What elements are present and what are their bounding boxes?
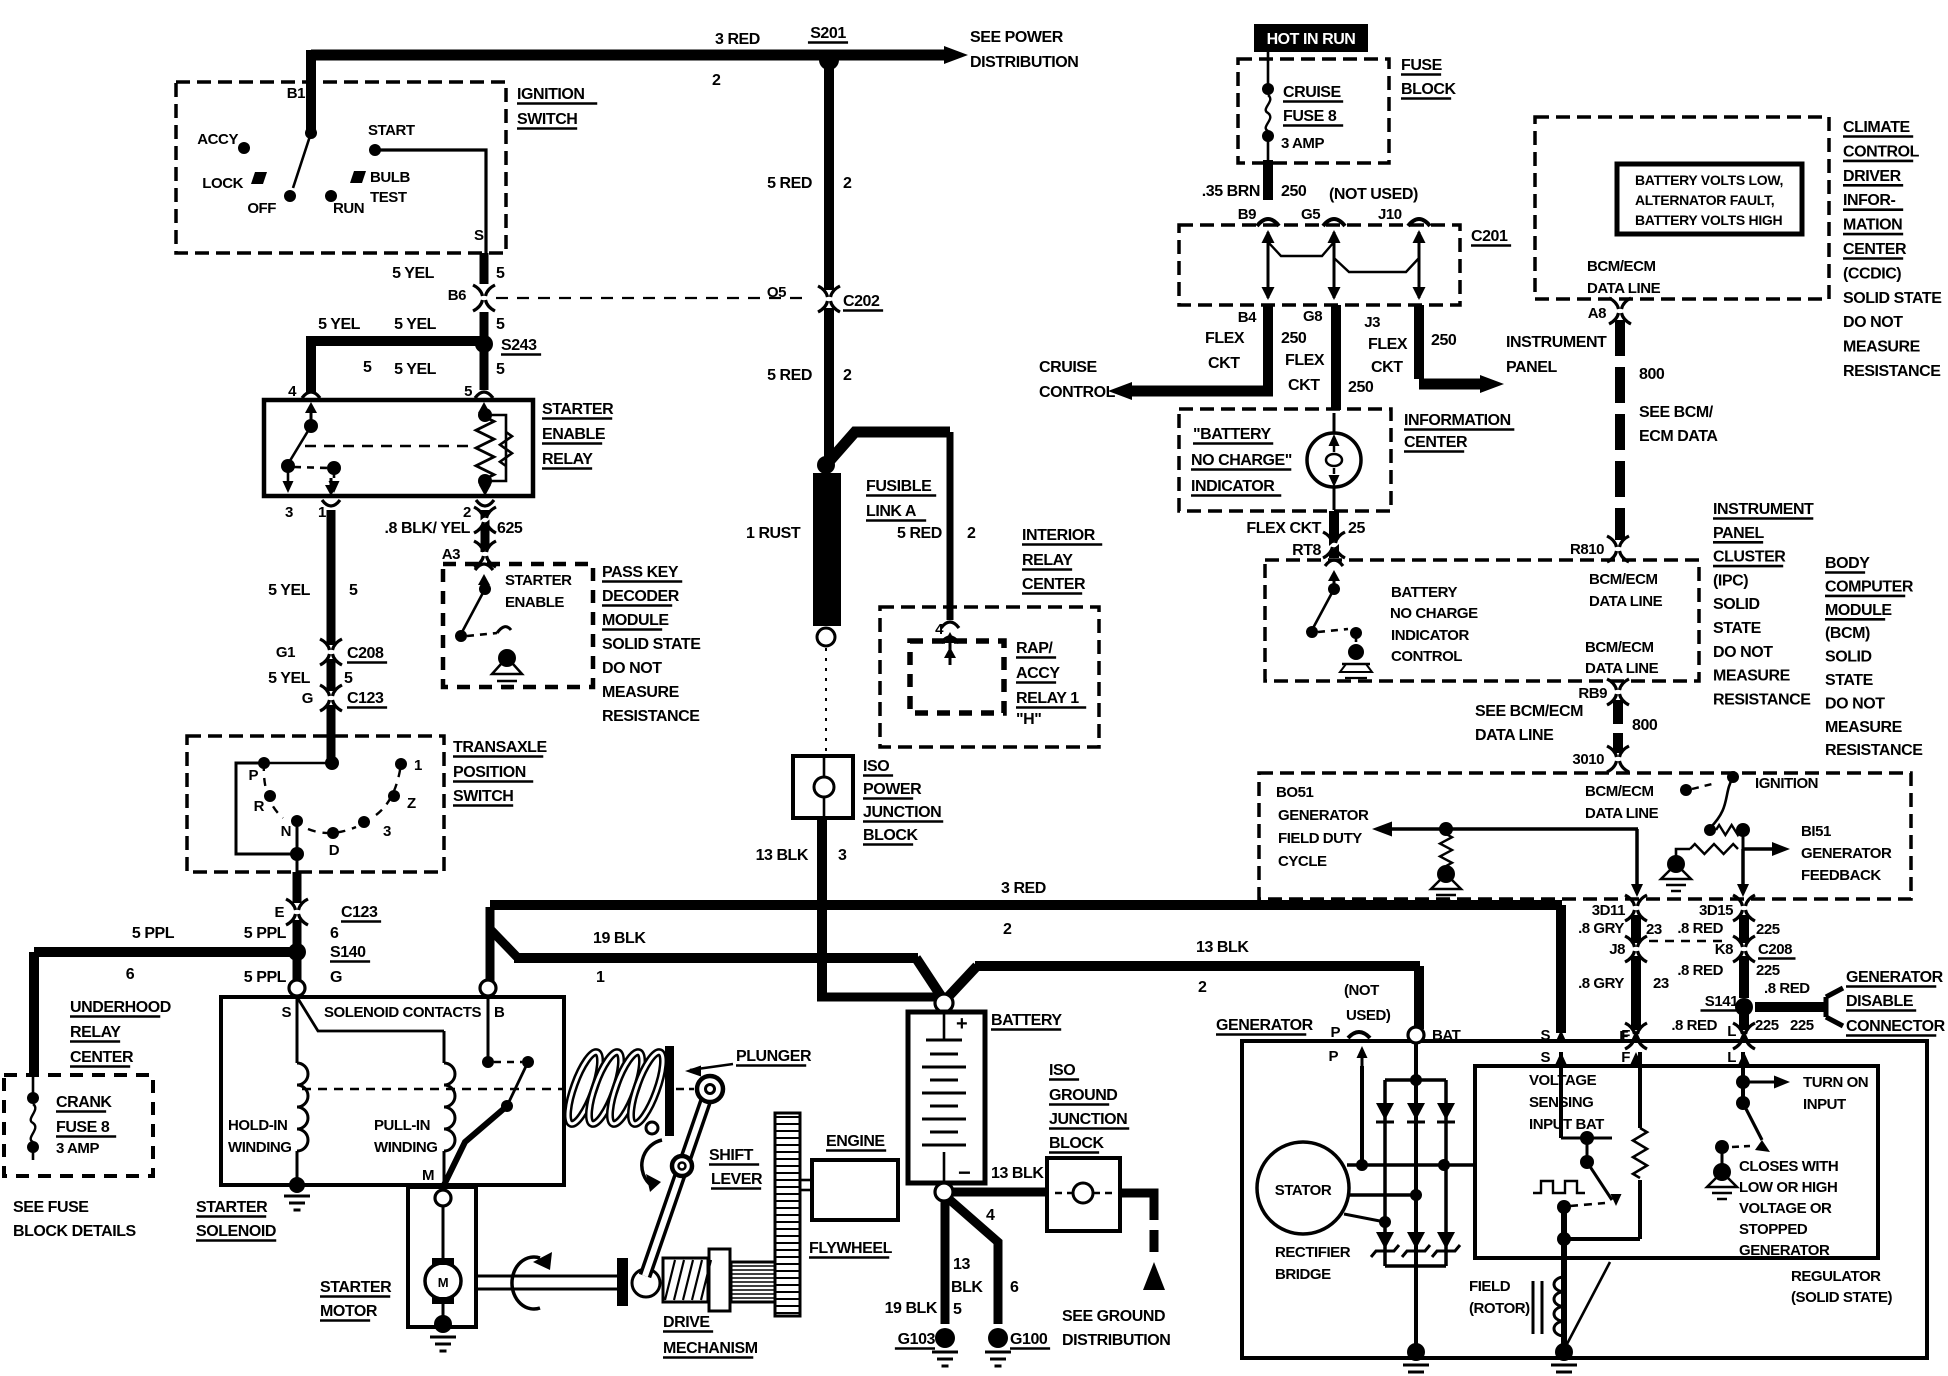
svg-text:FUSE 8: FUSE 8 <box>1283 108 1337 125</box>
svg-text:5 YEL: 5 YEL <box>268 670 311 687</box>
svg-text:GENERATOR: GENERATOR <box>1216 1017 1314 1034</box>
svg-text:.8 RED: .8 RED <box>1677 920 1723 937</box>
svg-text:G5: G5 <box>1301 206 1320 223</box>
svg-text:CRANK: CRANK <box>56 1094 112 1111</box>
svg-text:S141: S141 <box>1705 993 1738 1010</box>
svg-text:INSTRUMENT: INSTRUMENT <box>1713 501 1814 518</box>
svg-text:5 YEL: 5 YEL <box>394 316 437 333</box>
svg-text:2: 2 <box>843 367 852 384</box>
svg-text:5 YEL: 5 YEL <box>392 265 435 282</box>
svg-text:5 PPL: 5 PPL <box>244 925 287 942</box>
svg-text:BAT: BAT <box>1432 1027 1461 1044</box>
svg-text:NO CHARGE: NO CHARGE <box>1390 605 1478 622</box>
svg-text:S: S <box>474 227 484 244</box>
svg-text:STARTER: STARTER <box>505 572 572 589</box>
svg-text:DATA LINE: DATA LINE <box>1475 727 1554 744</box>
svg-text:P: P <box>1330 1024 1340 1041</box>
svg-text:CENTER: CENTER <box>1022 576 1086 593</box>
svg-text:HOLD-IN: HOLD-IN <box>228 1117 287 1134</box>
svg-text:S243: S243 <box>501 337 537 354</box>
svg-text:BLOCK: BLOCK <box>1401 81 1457 98</box>
svg-text:SOLID STATE: SOLID STATE <box>1843 290 1942 307</box>
svg-text:4: 4 <box>288 383 297 400</box>
svg-text:RUN: RUN <box>333 200 364 217</box>
svg-text:RESISTANCE: RESISTANCE <box>602 708 700 725</box>
svg-text:SOLENOID CONTACTS: SOLENOID CONTACTS <box>324 1004 482 1021</box>
svg-text:P: P <box>248 767 258 784</box>
svg-text:RELAY: RELAY <box>542 451 593 468</box>
svg-text:TEST: TEST <box>370 189 407 206</box>
svg-text:ENABLE: ENABLE <box>505 594 564 611</box>
svg-text:INFORMATION: INFORMATION <box>1404 412 1511 429</box>
svg-text:DATA LINE: DATA LINE <box>1585 660 1659 677</box>
svg-text:−: − <box>958 1160 970 1185</box>
svg-text:13 BLK: 13 BLK <box>756 847 809 864</box>
svg-text:J3: J3 <box>1364 314 1380 331</box>
svg-text:PULL-IN: PULL-IN <box>374 1117 430 1134</box>
svg-text:MODULE: MODULE <box>1825 602 1892 619</box>
svg-text:250: 250 <box>1431 332 1457 349</box>
svg-text:FUSE 8: FUSE 8 <box>56 1119 110 1136</box>
svg-text:START: START <box>368 122 415 139</box>
svg-text:(ROTOR): (ROTOR) <box>1469 1300 1530 1317</box>
svg-text:FLEX: FLEX <box>1205 330 1245 347</box>
svg-text:REGULATOR: REGULATOR <box>1791 1268 1881 1285</box>
svg-text:PANEL: PANEL <box>1713 525 1764 542</box>
svg-text:.8 RED: .8 RED <box>1677 962 1723 979</box>
svg-text:B4: B4 <box>1238 309 1257 326</box>
svg-text:6: 6 <box>1010 1279 1019 1296</box>
svg-text:IGNITION: IGNITION <box>517 86 585 103</box>
svg-text:JUNCTION: JUNCTION <box>1049 1111 1127 1128</box>
svg-text:BI51: BI51 <box>1801 823 1831 840</box>
svg-text:RELAY: RELAY <box>1022 552 1073 569</box>
svg-text:MODULE: MODULE <box>602 612 669 629</box>
svg-text:5 PPL: 5 PPL <box>244 969 287 986</box>
svg-text:CENTER: CENTER <box>1404 434 1468 451</box>
svg-text:2: 2 <box>712 72 721 89</box>
svg-text:BATTERY VOLTS HIGH: BATTERY VOLTS HIGH <box>1635 212 1782 228</box>
svg-text:CONTROL: CONTROL <box>1391 648 1462 665</box>
svg-text:FUSE: FUSE <box>1401 57 1443 74</box>
svg-text:2: 2 <box>1003 921 1012 938</box>
svg-text:C123: C123 <box>341 904 378 921</box>
svg-text:3 AMP: 3 AMP <box>1281 135 1324 152</box>
svg-text:MEASURE: MEASURE <box>1843 339 1921 356</box>
svg-text:3: 3 <box>383 823 391 840</box>
svg-text:GENERATOR: GENERATOR <box>1801 845 1892 862</box>
svg-text:COMPUTER: COMPUTER <box>1825 578 1914 595</box>
svg-text:ISO: ISO <box>863 758 889 775</box>
svg-text:BCM/ECM: BCM/ECM <box>1585 783 1654 800</box>
svg-text:G100: G100 <box>1010 1331 1048 1348</box>
svg-text:ACCY: ACCY <box>1016 665 1060 682</box>
svg-text:13 BLK: 13 BLK <box>991 1165 1044 1182</box>
svg-text:DISTRIBUTION: DISTRIBUTION <box>1062 1332 1170 1349</box>
svg-text:F: F <box>1621 1027 1630 1044</box>
svg-text:DO NOT: DO NOT <box>1825 695 1885 712</box>
svg-text:E: E <box>274 904 284 921</box>
svg-text:1: 1 <box>318 504 326 521</box>
svg-text:1 RUST: 1 RUST <box>746 525 801 542</box>
svg-text:VOLTAGE OR: VOLTAGE OR <box>1739 1200 1832 1217</box>
svg-text:A3: A3 <box>442 546 460 563</box>
svg-text:DRIVE: DRIVE <box>663 1314 710 1331</box>
svg-text:CKT: CKT <box>1371 359 1403 376</box>
svg-text:CRUISE: CRUISE <box>1283 84 1342 101</box>
svg-text:C208: C208 <box>1758 941 1792 958</box>
svg-text:(NOT USED): (NOT USED) <box>1329 186 1418 203</box>
svg-text:INPUT BAT: INPUT BAT <box>1529 1116 1604 1133</box>
svg-text:13 BLK: 13 BLK <box>1196 939 1249 956</box>
svg-text:5 RED: 5 RED <box>897 525 942 542</box>
svg-text:Z: Z <box>407 795 416 812</box>
svg-text:(BCM): (BCM) <box>1825 625 1870 642</box>
svg-text:800: 800 <box>1632 717 1658 734</box>
svg-text:1: 1 <box>596 969 605 986</box>
svg-text:R810: R810 <box>1570 541 1604 558</box>
svg-text:CLUSTER: CLUSTER <box>1713 549 1786 566</box>
svg-text:625: 625 <box>497 520 523 537</box>
svg-text:STARTER: STARTER <box>320 1279 392 1296</box>
svg-text:P: P <box>1328 1048 1338 1065</box>
svg-text:INDICATOR: INDICATOR <box>1391 627 1470 644</box>
svg-text:BATTERY VOLTS LOW,: BATTERY VOLTS LOW, <box>1635 172 1783 188</box>
svg-text:N: N <box>281 823 291 840</box>
svg-text:6: 6 <box>330 925 339 942</box>
svg-text:FUSIBLE: FUSIBLE <box>866 478 932 495</box>
svg-text:WINDING: WINDING <box>374 1139 438 1156</box>
svg-text:BULB: BULB <box>370 169 410 186</box>
svg-text:G: G <box>302 690 313 707</box>
svg-text:3: 3 <box>285 504 293 521</box>
svg-text:RESISTANCE: RESISTANCE <box>1713 691 1811 708</box>
svg-text:(CCDIC): (CCDIC) <box>1843 265 1901 282</box>
svg-text:STOPPED: STOPPED <box>1739 1221 1808 1238</box>
svg-text:CLIMATE: CLIMATE <box>1843 119 1911 136</box>
svg-text:5: 5 <box>496 316 505 333</box>
svg-text:5: 5 <box>496 361 505 378</box>
svg-text:INFOR-: INFOR- <box>1843 192 1896 209</box>
svg-text:250: 250 <box>1348 379 1374 396</box>
svg-text:S: S <box>1540 1027 1550 1044</box>
svg-text:2: 2 <box>843 175 852 192</box>
svg-text:(IPC): (IPC) <box>1713 572 1748 589</box>
svg-text:DO NOT: DO NOT <box>1843 314 1903 331</box>
svg-text:225: 225 <box>1790 1017 1814 1034</box>
svg-text:M: M <box>438 1275 448 1290</box>
svg-text:3: 3 <box>838 847 847 864</box>
svg-text:C208: C208 <box>347 645 384 662</box>
svg-text:DO NOT: DO NOT <box>602 660 662 677</box>
svg-text:BCM/ECM: BCM/ECM <box>1585 639 1654 656</box>
svg-text:POWER: POWER <box>863 781 922 798</box>
svg-text:FLYWHEEL: FLYWHEEL <box>809 1240 893 1257</box>
svg-text:LOW OR HIGH: LOW OR HIGH <box>1739 1179 1837 1196</box>
svg-text:C202: C202 <box>843 293 880 310</box>
svg-text:FLEX CKT: FLEX CKT <box>1246 520 1321 537</box>
svg-text:"BATTERY: "BATTERY <box>1193 426 1272 443</box>
svg-text:GENERATOR: GENERATOR <box>1278 807 1369 824</box>
svg-text:INDICATOR: INDICATOR <box>1191 478 1275 495</box>
svg-text:BODY: BODY <box>1825 555 1870 572</box>
svg-text:13: 13 <box>953 1256 970 1273</box>
svg-text:CONNECTOR: CONNECTOR <box>1846 1018 1946 1035</box>
svg-text:STATOR: STATOR <box>1275 1182 1332 1199</box>
svg-text:4: 4 <box>986 1207 995 1224</box>
svg-text:GENERATOR: GENERATOR <box>1846 969 1944 986</box>
svg-text:SEE POWER: SEE POWER <box>970 29 1064 46</box>
svg-text:ENABLE: ENABLE <box>542 426 606 443</box>
svg-text:5 PPL: 5 PPL <box>132 925 175 942</box>
svg-text:BLOCK: BLOCK <box>863 827 919 844</box>
svg-text:SEE FUSE: SEE FUSE <box>13 1199 89 1216</box>
svg-text:PANEL: PANEL <box>1506 359 1557 376</box>
svg-text:IGNITION: IGNITION <box>1755 775 1818 792</box>
svg-text:TRANSAXLE: TRANSAXLE <box>453 739 548 756</box>
svg-text:5: 5 <box>953 1301 962 1318</box>
svg-text:BATTERY: BATTERY <box>991 1012 1062 1029</box>
svg-text:B9: B9 <box>1238 206 1256 223</box>
svg-text:SOLID STATE: SOLID STATE <box>602 636 701 653</box>
svg-text:5 RED: 5 RED <box>767 175 812 192</box>
svg-text:225: 225 <box>1755 1017 1779 1034</box>
svg-text:2: 2 <box>1198 979 1207 996</box>
svg-text:5: 5 <box>344 670 353 687</box>
svg-text:C201: C201 <box>1471 228 1508 245</box>
svg-text:DATA LINE: DATA LINE <box>1589 593 1663 610</box>
svg-text:ALTERNATOR FAULT,: ALTERNATOR FAULT, <box>1635 192 1774 208</box>
svg-text:MATION: MATION <box>1843 217 1902 234</box>
svg-text:BLOCK: BLOCK <box>1049 1135 1105 1152</box>
svg-text:G8: G8 <box>1303 308 1322 325</box>
svg-text:RELAY: RELAY <box>70 1024 121 1041</box>
svg-text:.8 BLK/ YEL: .8 BLK/ YEL <box>385 520 471 537</box>
svg-text:DISABLE: DISABLE <box>1846 993 1914 1010</box>
svg-text:5: 5 <box>349 582 358 599</box>
svg-text:5 YEL: 5 YEL <box>268 582 311 599</box>
svg-text:SEE GROUND: SEE GROUND <box>1062 1308 1165 1325</box>
svg-text:5 YEL: 5 YEL <box>318 316 361 333</box>
svg-text:RB9: RB9 <box>1578 685 1607 702</box>
svg-text:BLOCK DETAILS: BLOCK DETAILS <box>13 1223 137 1240</box>
svg-text:G103: G103 <box>898 1331 936 1348</box>
svg-text:5 YEL: 5 YEL <box>394 361 437 378</box>
svg-text:MEASURE: MEASURE <box>602 684 680 701</box>
svg-text:800: 800 <box>1639 366 1665 383</box>
svg-text:MECHANISM: MECHANISM <box>663 1340 758 1357</box>
svg-text:SEE BCM/: SEE BCM/ <box>1639 404 1714 421</box>
svg-text:LINK A: LINK A <box>866 503 917 520</box>
svg-text:(SOLID STATE): (SOLID STATE) <box>1791 1289 1893 1306</box>
svg-text:J8: J8 <box>1609 941 1625 958</box>
svg-text:BLK: BLK <box>951 1279 983 1296</box>
svg-text:2: 2 <box>967 525 976 542</box>
svg-text:INTERIOR: INTERIOR <box>1022 527 1096 544</box>
svg-text:USED): USED) <box>1346 1007 1391 1024</box>
svg-text:SEE BCM/ECM: SEE BCM/ECM <box>1475 703 1583 720</box>
svg-text:250: 250 <box>1281 183 1307 200</box>
svg-text:CYCLE: CYCLE <box>1278 853 1327 870</box>
svg-text:F: F <box>1621 1049 1630 1066</box>
svg-text:INSTRUMENT: INSTRUMENT <box>1506 334 1607 351</box>
svg-text:ENGINE: ENGINE <box>826 1133 885 1150</box>
svg-text:3010: 3010 <box>1572 751 1604 768</box>
svg-text:2: 2 <box>463 504 471 521</box>
svg-text:3D11: 3D11 <box>1592 902 1625 919</box>
svg-text:CKT: CKT <box>1288 377 1320 394</box>
svg-text:JUNCTION: JUNCTION <box>863 804 941 821</box>
svg-text:DATA LINE: DATA LINE <box>1585 805 1659 822</box>
svg-text:OFF: OFF <box>247 200 276 217</box>
svg-text:S: S <box>281 1004 291 1021</box>
svg-text:19 BLK: 19 BLK <box>593 930 646 947</box>
svg-text:L: L <box>1727 1049 1736 1066</box>
svg-text:5: 5 <box>464 383 472 400</box>
svg-text:.8 GRY: .8 GRY <box>1578 920 1624 937</box>
svg-text:BO51: BO51 <box>1276 784 1313 801</box>
svg-text:S: S <box>1540 1049 1550 1066</box>
svg-text:B: B <box>494 1004 505 1021</box>
svg-text:DECODER: DECODER <box>602 588 680 605</box>
svg-text:4: 4 <box>935 621 944 638</box>
svg-text:WINDING: WINDING <box>228 1139 292 1156</box>
svg-text:FIELD: FIELD <box>1469 1278 1511 1295</box>
svg-text:G1: G1 <box>276 644 295 661</box>
svg-text:NO CHARGE": NO CHARGE" <box>1191 452 1292 469</box>
svg-text:CENTER: CENTER <box>70 1049 134 1066</box>
svg-text:(NOT: (NOT <box>1344 982 1379 999</box>
svg-text:D: D <box>329 842 340 859</box>
svg-text:J10: J10 <box>1378 206 1402 223</box>
svg-text:INPUT: INPUT <box>1803 1096 1846 1113</box>
svg-text:K8: K8 <box>1715 941 1733 958</box>
svg-text:5: 5 <box>363 359 372 376</box>
svg-text:G: G <box>330 969 342 986</box>
svg-text:CLOSES WITH: CLOSES WITH <box>1739 1158 1838 1175</box>
svg-text:O5: O5 <box>767 284 786 301</box>
svg-text:S201: S201 <box>810 25 846 42</box>
svg-text:DRIVER: DRIVER <box>1843 168 1902 185</box>
svg-text:"H": "H" <box>1016 711 1041 728</box>
svg-text:STARTER: STARTER <box>542 401 614 418</box>
svg-text:225: 225 <box>1756 962 1780 979</box>
svg-text:CRUISE: CRUISE <box>1039 359 1098 376</box>
svg-text:C123: C123 <box>347 690 384 707</box>
svg-text:+: + <box>956 1013 967 1035</box>
svg-text:SOLID: SOLID <box>1713 596 1760 613</box>
svg-text:MEASURE: MEASURE <box>1825 719 1903 736</box>
svg-text:DISTRIBUTION: DISTRIBUTION <box>970 54 1078 71</box>
svg-text:STARTER: STARTER <box>196 1199 268 1216</box>
svg-text:3 RED: 3 RED <box>715 31 760 48</box>
svg-text:POSITION: POSITION <box>453 764 526 781</box>
svg-text:.8 GRY: .8 GRY <box>1578 975 1624 992</box>
svg-text:RT8: RT8 <box>1292 542 1321 559</box>
svg-text:BCM/ECM: BCM/ECM <box>1589 571 1658 588</box>
svg-text:MEASURE: MEASURE <box>1713 668 1791 685</box>
svg-text:LOCK: LOCK <box>202 175 243 192</box>
svg-text:3 AMP: 3 AMP <box>56 1140 99 1157</box>
svg-text:FLEX: FLEX <box>1368 336 1408 353</box>
svg-text:SOLID: SOLID <box>1825 649 1872 666</box>
svg-text:RESISTANCE: RESISTANCE <box>1825 742 1923 759</box>
svg-text:25: 25 <box>1348 520 1365 537</box>
svg-text:CONTROL: CONTROL <box>1843 143 1920 160</box>
svg-text:RECTIFIER: RECTIFIER <box>1275 1244 1351 1261</box>
svg-text:BRIDGE: BRIDGE <box>1275 1266 1331 1283</box>
svg-text:CKT: CKT <box>1208 355 1240 372</box>
svg-text:GROUND: GROUND <box>1049 1087 1117 1104</box>
svg-text:M: M <box>422 1167 434 1184</box>
svg-text:ECM DATA: ECM DATA <box>1639 428 1718 445</box>
svg-text:STATE: STATE <box>1825 672 1874 689</box>
svg-text:FIELD DUTY: FIELD DUTY <box>1278 830 1362 847</box>
svg-text:RAP/: RAP/ <box>1016 640 1053 657</box>
svg-text:MOTOR: MOTOR <box>320 1303 378 1320</box>
svg-text:UNDERHOOD: UNDERHOOD <box>70 999 171 1016</box>
svg-text:ISO: ISO <box>1049 1062 1075 1079</box>
svg-text:3 RED: 3 RED <box>1001 880 1046 897</box>
svg-text:.35 BRN: .35 BRN <box>1202 183 1260 200</box>
svg-text:5 RED: 5 RED <box>767 367 812 384</box>
svg-text:RESISTANCE: RESISTANCE <box>1843 363 1941 380</box>
svg-text:BATTERY: BATTERY <box>1391 584 1457 601</box>
svg-text:SHIFT: SHIFT <box>709 1147 754 1164</box>
svg-text:B6: B6 <box>448 287 466 304</box>
svg-text:250: 250 <box>1281 330 1307 347</box>
svg-text:BCM/ECM: BCM/ECM <box>1587 258 1656 275</box>
svg-text:SWITCH: SWITCH <box>453 788 513 805</box>
svg-text:23: 23 <box>1653 975 1669 992</box>
svg-text:PLUNGER: PLUNGER <box>736 1048 812 1065</box>
svg-text:GENERATOR: GENERATOR <box>1739 1242 1830 1259</box>
svg-text:FEEDBACK: FEEDBACK <box>1801 867 1881 884</box>
svg-text:CONTROL: CONTROL <box>1039 384 1116 401</box>
svg-text:TURN ON: TURN ON <box>1803 1074 1868 1091</box>
svg-text:.8 RED: .8 RED <box>1764 980 1810 997</box>
svg-text:DATA LINE: DATA LINE <box>1587 280 1661 297</box>
svg-text:R: R <box>254 798 265 815</box>
svg-text:5: 5 <box>496 265 505 282</box>
svg-text:1: 1 <box>414 757 422 774</box>
svg-text:HOT IN RUN: HOT IN RUN <box>1267 31 1356 48</box>
svg-text:23: 23 <box>1646 921 1662 938</box>
svg-text:FLEX: FLEX <box>1285 352 1325 369</box>
svg-text:ACCY: ACCY <box>197 131 238 148</box>
svg-text:6: 6 <box>126 966 135 983</box>
svg-text:CENTER: CENTER <box>1843 241 1907 258</box>
svg-text:RELAY 1: RELAY 1 <box>1016 690 1079 707</box>
svg-text:SOLENOID: SOLENOID <box>196 1223 276 1240</box>
svg-text:19 BLK: 19 BLK <box>885 1300 938 1317</box>
svg-text:A8: A8 <box>1588 305 1606 322</box>
svg-text:225: 225 <box>1756 921 1780 938</box>
svg-text:.8 RED: .8 RED <box>1671 1017 1717 1034</box>
svg-text:STATE: STATE <box>1713 620 1762 637</box>
svg-text:3D15: 3D15 <box>1699 902 1733 919</box>
svg-text:SWITCH: SWITCH <box>517 111 577 128</box>
svg-text:DO NOT: DO NOT <box>1713 644 1773 661</box>
svg-text:B1: B1 <box>287 85 305 102</box>
svg-text:PASS KEY: PASS KEY <box>602 564 679 581</box>
svg-text:LEVER: LEVER <box>711 1171 763 1188</box>
svg-text:S140: S140 <box>330 944 366 961</box>
